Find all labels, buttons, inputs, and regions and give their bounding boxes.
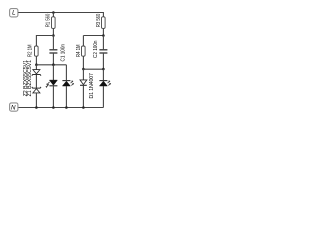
label R4 1M xyxy=(76,45,82,58)
diode D1 (down, outline) xyxy=(80,69,87,107)
resistor R2 xyxy=(35,46,39,65)
terminal N xyxy=(10,103,18,111)
wire node X to R2 xyxy=(36,36,53,47)
resistor R1 xyxy=(52,13,56,36)
zener Z1 xyxy=(32,87,41,108)
wire mid-left rail xyxy=(36,64,66,66)
wire bottom rail xyxy=(18,107,103,109)
svg-text:R4 1M: R4 1M xyxy=(76,45,82,58)
resistor R4 xyxy=(82,36,86,70)
label R2 1M xyxy=(28,45,34,58)
svg-text:R3 560: R3 560 xyxy=(96,14,102,27)
label Z1 BZX55C5V1 xyxy=(27,60,33,97)
junction dot rail at LED2 xyxy=(65,106,68,109)
LED2 (up) xyxy=(62,81,70,108)
wire top rail xyxy=(18,12,103,14)
svg-text:R2 1M: R2 1M xyxy=(28,45,34,58)
junction dot top rail at R1 xyxy=(52,11,55,14)
label R3 560 xyxy=(96,14,102,27)
svg-text:D1 1N4007: D1 1N4007 xyxy=(89,73,95,99)
svg-text:C1 100n: C1 100n xyxy=(61,44,67,62)
wire R4 top to node P xyxy=(83,35,103,37)
node R junction dot xyxy=(102,68,105,71)
svg-text:Z1 BZX55C5V1: Z1 BZX55C5V1 xyxy=(27,60,33,97)
LED1 (down) xyxy=(49,65,57,108)
label R1 560 xyxy=(46,14,52,27)
label D1 1N4007 xyxy=(89,73,95,99)
node P junction dot xyxy=(102,34,105,37)
svg-text:C2 100n: C2 100n xyxy=(93,40,99,58)
junction dot node A xyxy=(52,63,55,66)
node X junction dot xyxy=(52,34,55,37)
label Z2 BZX55C5V1 xyxy=(23,60,29,97)
resistor R3 xyxy=(102,12,106,36)
label C2 100n xyxy=(93,40,99,58)
junction dot rail at LED1 xyxy=(52,106,55,109)
capacitor C2 xyxy=(99,36,107,70)
LED2 emission arrows xyxy=(71,80,75,86)
svg-text:N: N xyxy=(11,104,16,111)
wire mid-right rail xyxy=(83,68,103,70)
svg-text:L: L xyxy=(12,10,16,17)
junction dot rail at zeners xyxy=(35,106,38,109)
junction dot rail at D1 xyxy=(82,106,85,109)
svg-text:R1 560: R1 560 xyxy=(46,14,52,27)
node Q junction dot xyxy=(82,68,85,71)
LED1 emission arrows xyxy=(45,82,50,88)
capacitor C1 xyxy=(49,36,57,65)
wire LED2 top corner xyxy=(65,65,67,80)
terminal L xyxy=(10,9,18,17)
zener Z2 xyxy=(32,65,41,88)
LED3 emission arrows xyxy=(108,80,112,86)
label C1 100n xyxy=(61,44,67,62)
LED3 (up) xyxy=(99,69,107,107)
node Y junction dot xyxy=(35,63,38,66)
